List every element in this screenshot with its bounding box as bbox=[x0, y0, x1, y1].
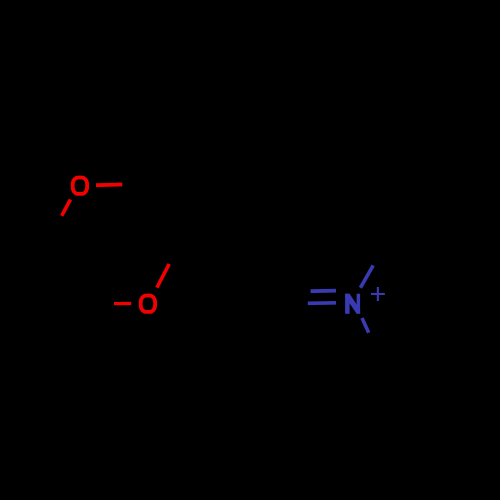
bond O2 - CH3, red half, horizontal left stub bbox=[114, 302, 131, 305]
atom N+ (iminium nitrogen) glyph bbox=[345, 294, 360, 314]
charge plus sign bbox=[371, 287, 385, 301]
bond O1 - C(aromatic), red half, horizontal right bbox=[96, 183, 122, 187]
bond N - C3, blue half, down-right bbox=[362, 318, 369, 333]
bond O1 - CH3, red half, down-left bbox=[62, 200, 71, 216]
bond O2 - C(aromatic), red half, up-right bbox=[157, 264, 169, 288]
bond N - CH3, blue half, up-right bbox=[360, 265, 373, 287]
atom O2 (methoxy oxygen, lower) bbox=[141, 296, 155, 312]
double bond C1=N, inner (upper) blue half-line bbox=[311, 289, 336, 293]
atom O1 (methoxy oxygen, upper left) bbox=[73, 178, 87, 194]
double bond C1=N, main (lower) blue half-line bbox=[308, 301, 336, 305]
